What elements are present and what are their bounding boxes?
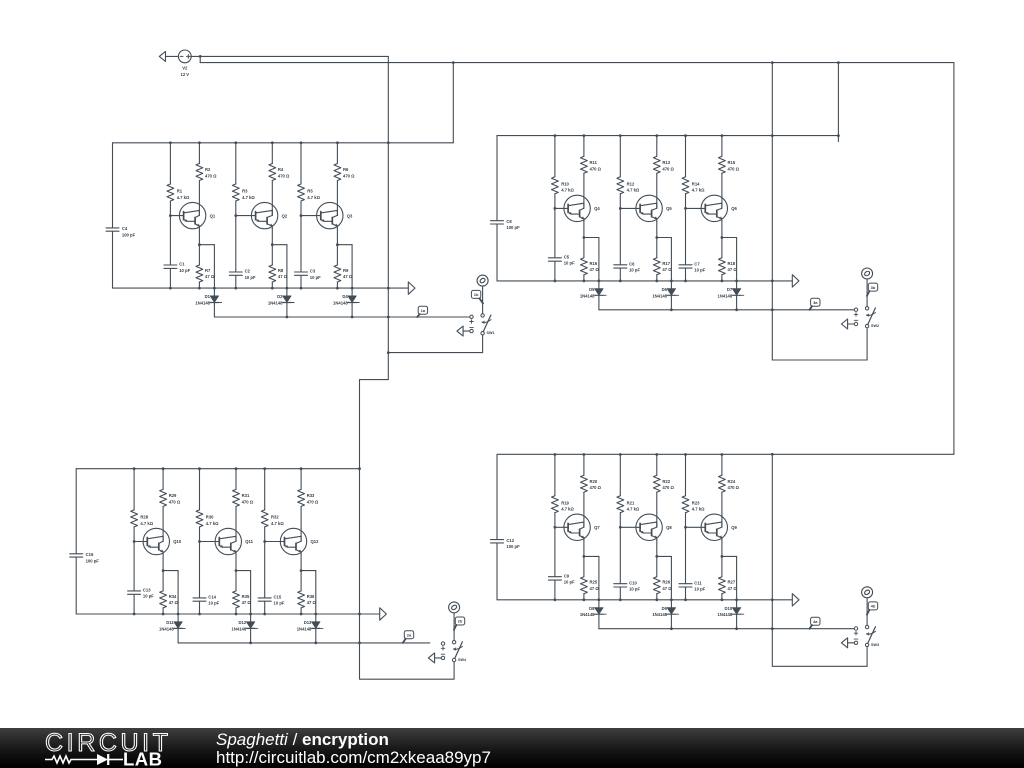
svg-text:SW4: SW4 [458,658,467,662]
svg-text:47 Ω: 47 Ω [278,274,288,279]
svg-text:10 pF: 10 pF [629,268,640,273]
junction [771,453,774,456]
svg-text:470 Ω: 470 Ω [662,485,674,490]
wire [496,455,498,600]
svg-text:R5: R5 [307,189,313,194]
wire [685,513,687,584]
capacitor C14 [193,595,220,606]
wire [213,303,215,317]
wire [264,469,266,510]
wire [482,286,484,314]
junction [387,351,390,354]
wire [599,628,854,630]
junction [133,613,136,616]
diode D4 [333,294,359,305]
svg-text:4.7 kΩ: 4.7 kΩ [692,188,705,193]
wire [721,492,723,527]
wire [236,571,251,614]
svg-text:47 Ω: 47 Ω [307,600,317,605]
wire [199,527,201,598]
junction [286,316,289,319]
junction [300,613,303,616]
svg-text:4.7 kΩ: 4.7 kΩ [627,188,640,193]
wire [134,541,143,543]
svg-text:470 Ω: 470 Ω [728,485,740,490]
junction [263,540,266,543]
junction [169,141,172,144]
svg-text:SW2: SW2 [871,324,879,328]
junction [684,526,687,529]
svg-text:R34: R34 [169,594,177,599]
wire [113,287,409,289]
junction [271,243,274,246]
svg-text:47 Ω: 47 Ω [662,586,672,591]
capacitor C4 [106,226,136,237]
wire [772,63,867,360]
svg-text:10 pF: 10 pF [564,261,575,266]
svg-text:47 Ω: 47 Ω [590,267,600,272]
wire [686,526,702,528]
svg-text:D7: D7 [727,287,733,292]
junction [271,287,274,290]
wire [583,173,585,208]
wire [336,143,338,164]
wire [235,506,237,541]
wire [670,281,672,289]
wire [199,245,214,288]
svg-text:1N4148: 1N4148 [159,626,174,631]
svg-text:1N4148: 1N4148 [580,612,595,617]
resistor R10 [552,177,575,194]
wire [866,279,868,307]
flag 2b [454,617,465,630]
svg-text:47 Ω: 47 Ω [590,586,600,591]
transistor Q5 [636,195,672,221]
resistor R16 [581,258,600,275]
junction [735,308,738,311]
wire [656,275,658,281]
junction [336,243,339,246]
capacitor C16 [70,552,100,563]
diode D11 [159,620,185,631]
capacitor C7 [679,261,706,272]
svg-text:1b: 1b [474,292,479,297]
wire [453,613,455,641]
wire [177,614,179,622]
port [428,653,441,663]
flag 3b [867,283,878,296]
junction [177,613,180,616]
svg-text:100 pF: 100 pF [506,225,520,230]
resistor R6 [334,164,355,181]
capacitor C11 [679,580,706,591]
svg-text:C12: C12 [506,538,514,543]
svg-text:D5: D5 [589,287,595,292]
wire [170,215,179,217]
resistor R20 [581,475,602,492]
junction [655,236,658,239]
junction [249,613,252,616]
junction [351,287,354,290]
wire [300,608,302,614]
resistor R13 [653,156,674,173]
wire [736,600,738,608]
junction [169,214,172,217]
wire [286,303,288,317]
svg-text:10 pF: 10 pF [179,268,190,273]
junction [351,316,354,319]
svg-text:C14: C14 [208,595,216,600]
wire [497,453,954,455]
svg-text:10 pF: 10 pF [245,275,256,280]
junction [358,642,361,645]
switch SW1 [470,314,495,335]
svg-text:2a: 2a [407,632,412,637]
wire [198,143,200,164]
junction [198,243,201,246]
wire [198,282,200,288]
wire [685,455,687,496]
wire [76,613,380,615]
CircuitLab logo [45,729,172,768]
svg-text:C16: C16 [86,552,94,557]
wire [337,245,352,288]
wire [583,556,585,576]
junction [771,308,774,311]
wire [619,455,621,496]
wire [619,136,621,177]
svg-text:1N4148: 1N4148 [268,301,283,306]
junction [300,214,303,217]
wire [360,353,455,680]
wire [722,238,737,281]
svg-text:470 Ω: 470 Ω [205,174,217,179]
resistor R33 [298,489,319,506]
wire [554,455,556,496]
wire [685,268,687,281]
wire [315,614,317,622]
wire [656,541,658,557]
svg-text:10 pF: 10 pF [274,601,285,606]
svg-text:R28: R28 [140,515,148,520]
svg-text:D1: D1 [205,294,211,299]
junction [837,61,840,64]
wire [235,555,237,571]
wire [583,492,585,527]
svg-text:C3: C3 [310,269,316,274]
junction [314,613,317,616]
wire [235,469,237,490]
svg-text:47 Ω: 47 Ω [343,274,353,279]
svg-text:C8: C8 [506,219,512,224]
svg-text:4.7 kΩ: 4.7 kΩ [627,507,640,512]
resistor R27 [719,577,738,594]
junction [684,134,687,137]
junction [554,598,557,601]
junction [387,141,390,144]
junction [336,141,339,144]
wire [619,194,621,265]
resistor R26 [653,577,672,594]
transistor Q2 [251,202,287,228]
wire [178,642,430,644]
svg-text:10 pF: 10 pF [629,587,640,592]
resistor R18 [719,258,738,275]
svg-text:C4: C4 [122,226,128,231]
wire [336,245,338,265]
wire [686,207,702,209]
junction [655,598,658,601]
capacitor C5 [548,254,575,265]
resistor R7 [196,265,215,282]
wire [265,541,281,543]
junction [300,141,303,144]
junction [583,555,586,558]
wire [656,222,658,238]
wire [721,541,723,557]
node 4b [862,587,873,598]
wire [721,222,723,238]
junction [554,207,557,210]
svg-text:R24: R24 [728,479,736,484]
svg-text:R30: R30 [206,515,214,520]
junction [670,627,673,630]
junction [554,280,557,283]
wire [736,296,738,310]
svg-text:R10: R10 [561,182,569,187]
transistor Q10 [143,528,182,554]
wire [685,194,687,265]
svg-text:Q9: Q9 [731,525,737,530]
wire [953,63,955,455]
svg-text:47 Ω: 47 Ω [242,600,252,605]
svg-text:D8: D8 [589,606,595,611]
transistor Q4 [564,195,600,221]
wire [264,527,266,598]
node 3b [862,268,873,279]
junction [598,598,601,601]
wire [199,601,201,614]
resistor R29 [160,489,181,506]
svg-text:4.7 kΩ: 4.7 kΩ [561,188,574,193]
junction [771,627,774,630]
wire [301,215,317,217]
resistor R35 [233,591,252,608]
diode D9 [652,606,678,617]
flag 4a [810,617,821,629]
svg-text:Q6: Q6 [731,206,737,211]
resistor R9 [334,265,353,282]
svg-text:Q10: Q10 [173,539,182,544]
junction [162,613,165,616]
junction [452,61,455,64]
svg-text:470 Ω: 470 Ω [343,174,355,179]
wire [554,513,556,577]
svg-text:C13: C13 [143,588,151,593]
svg-text:1a: 1a [421,308,426,313]
wire [685,136,687,177]
svg-text:3b: 3b [871,285,876,290]
wire [685,587,687,600]
resistor R15 [719,156,740,173]
wire [388,335,482,353]
svg-text:R23: R23 [692,500,700,505]
transistor Q7 [564,514,600,540]
junction [619,280,622,283]
wire [271,143,273,164]
resistor R22 [653,475,674,492]
svg-text:D11: D11 [166,620,174,625]
wire [721,556,723,576]
wire [272,245,287,288]
svg-text:470 Ω: 470 Ω [169,499,181,504]
port [841,319,854,329]
svg-text:R29: R29 [169,493,177,498]
switch SW2 [854,307,879,328]
junction [771,134,774,137]
wire [133,595,135,615]
junction [735,280,738,283]
diode D6 [652,287,678,298]
svg-text:Q3: Q3 [347,213,353,218]
wire [250,614,252,622]
svg-text:1N4148: 1N4148 [718,612,733,617]
wire [300,276,302,289]
junction [358,467,361,470]
junction [837,134,840,137]
svg-text:D10: D10 [725,606,733,611]
wire [620,526,636,528]
transistor Q12 [280,528,319,554]
wire [670,600,672,608]
wire [264,601,266,614]
svg-text:10 pF: 10 pF [143,594,154,599]
junction [721,134,724,137]
junction [198,540,201,543]
wire [200,541,216,543]
resistor R5 [298,184,321,201]
wire [619,268,621,281]
wire [271,282,273,288]
wire [336,282,338,288]
svg-text:C7: C7 [694,261,700,266]
wire [583,541,585,557]
transistor Q3 [317,202,353,228]
svg-text:470 Ω: 470 Ω [590,485,602,490]
svg-text:R16: R16 [590,261,598,266]
transistor Q1 [179,202,215,228]
wire [112,143,114,288]
wire [866,598,868,626]
svg-text:47 Ω: 47 Ω [205,274,215,279]
wire [583,275,585,281]
junction [314,642,317,645]
junction [735,627,738,630]
wire [336,181,338,216]
junction [619,207,622,210]
junction [721,236,724,239]
svg-text:D6: D6 [662,287,668,292]
svg-text:47 Ω: 47 Ω [728,586,738,591]
svg-text:R21: R21 [627,500,635,505]
svg-text:4a: 4a [813,619,818,624]
wire [387,56,389,352]
wire [554,261,556,281]
junction [583,134,586,137]
resistor R31 [233,489,254,506]
port [841,638,854,648]
svg-text:R12: R12 [627,182,635,187]
junction [583,236,586,239]
junction [619,134,622,137]
junction [358,613,361,616]
resistor R36 [298,591,317,608]
wire [162,506,164,541]
svg-text:R11: R11 [590,160,598,165]
transistor Q11 [215,528,254,554]
wire [271,181,273,216]
svg-text:470 Ω: 470 Ω [590,166,602,171]
wire [554,136,556,177]
junction [684,280,687,283]
node 2b [449,602,460,613]
wire [736,615,738,629]
node 1b [477,275,488,286]
voltage source V2 [178,50,191,77]
wire [300,201,302,272]
svg-text:47 Ω: 47 Ω [728,267,738,272]
svg-text:1N4148: 1N4148 [718,293,733,298]
svg-text:R19: R19 [561,500,569,505]
wire [656,238,658,258]
wire [162,555,164,571]
transistor Q9 [701,514,737,540]
junction [199,55,202,58]
svg-text:Q11: Q11 [245,539,253,544]
wire [598,281,600,289]
svg-text:470 Ω: 470 Ω [307,499,319,504]
capacitor C15 [258,595,285,606]
wire [169,269,171,289]
junction [771,598,774,601]
wire [200,62,954,64]
wire [300,571,302,591]
svg-text:10 pF: 10 pF [694,268,705,273]
svg-text:47 Ω: 47 Ω [169,600,179,605]
svg-text:470 Ω: 470 Ω [728,166,740,171]
capacitor C12 [491,538,521,549]
svg-text:C2: C2 [245,269,251,274]
svg-text:4.7 kΩ: 4.7 kΩ [140,521,153,526]
resistor R28 [131,510,154,527]
wire [113,142,454,144]
svg-text:1N4148: 1N4148 [297,626,312,631]
svg-text:R26: R26 [662,580,670,585]
junction [771,61,774,64]
wire [722,556,737,599]
wire [300,555,302,571]
junction [300,287,303,290]
wire [555,526,564,528]
svg-text:4.7 kΩ: 4.7 kΩ [692,507,705,512]
wire [721,136,723,157]
wire [199,469,201,510]
svg-text:12 V: 12 V [180,72,189,77]
wire [315,629,317,643]
capacitor C8 [491,219,521,230]
resistor R4 [269,164,290,181]
svg-text:SW1: SW1 [487,331,495,335]
